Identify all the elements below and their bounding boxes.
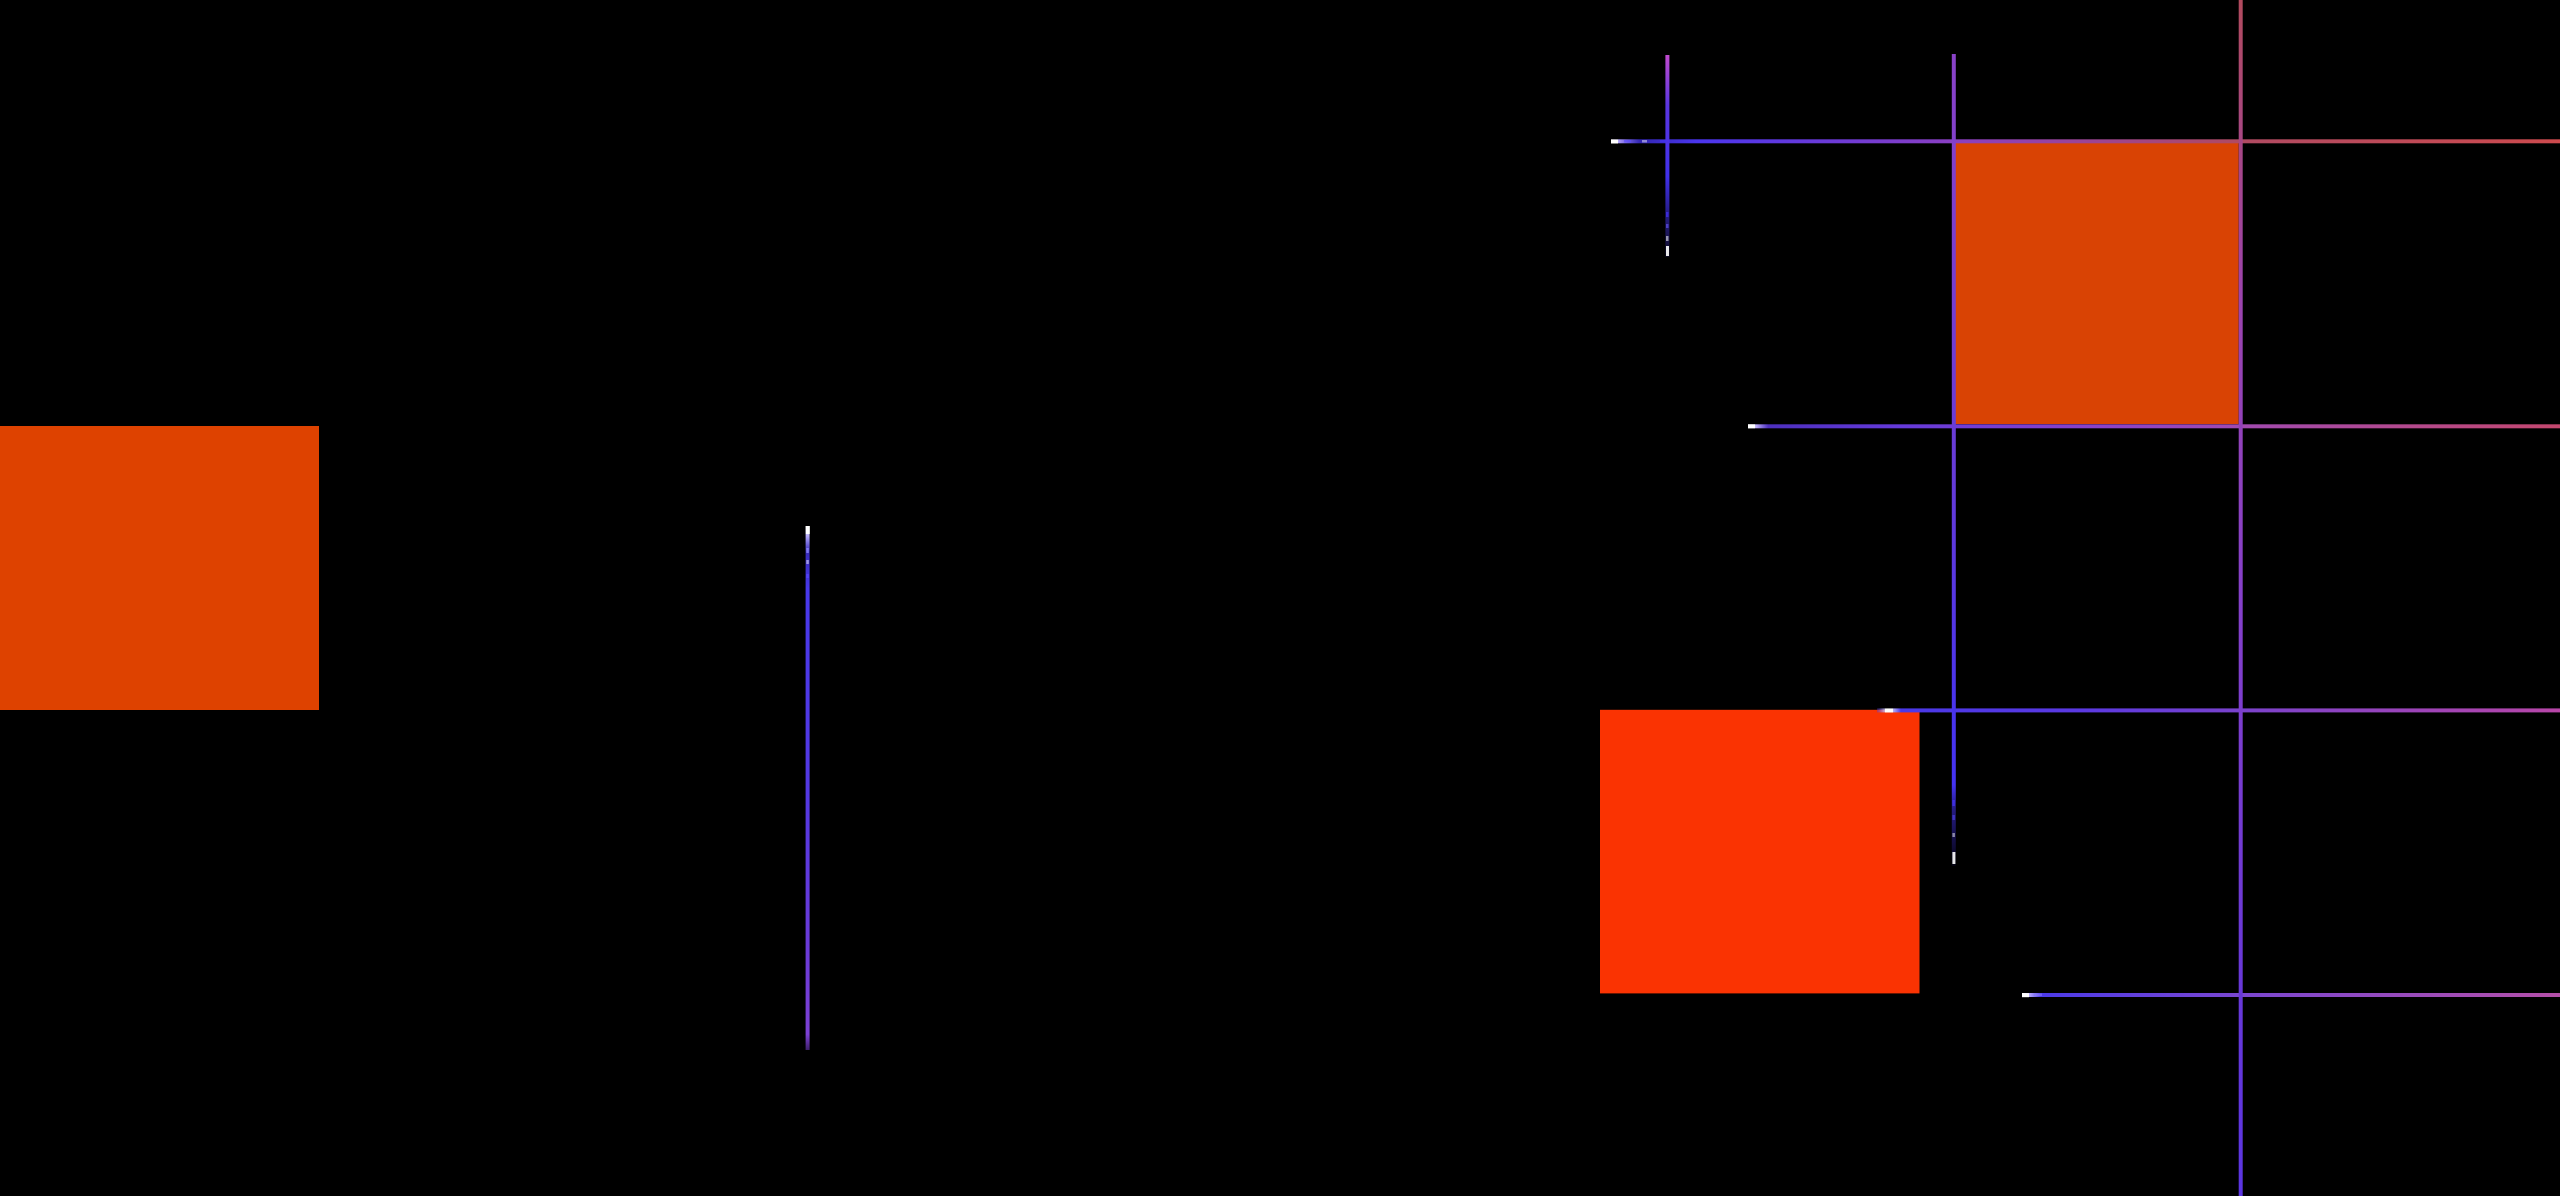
grid line V2 (vertical, x=1667) [1665,55,1669,257]
grid line V1 (vertical, x=807) [806,526,810,1050]
sparkle at V1 top tip [806,526,810,534]
speckles on H1 left segment [1624,140,1631,143]
grid line H1 (horizontal, y=141) [1611,139,2560,143]
speckles on V3 bottom tail [1952,800,1955,806]
sparkle at H2 left tip [1748,424,1755,428]
grid line H3 (horizontal, y=710) [1877,708,2560,712]
grid line V3 (vertical, x=1954) [1952,54,1956,866]
grid line V4 (vertical, x=2240) [2239,0,2243,1196]
sparkle at H4 tip [2022,993,2029,997]
square A (left orange block) [0,426,319,710]
square C (bottom-right red block) [1600,710,1920,994]
sparkle at V3 bottom tail [1952,852,1955,864]
sparkle at V2 bottom tail [1666,246,1669,256]
sparkle at H3 tip [1885,709,1893,713]
speckles on V1 top tail [806,548,809,553]
grid line H2 (horizontal, y=426) [1748,424,2560,428]
grid line H4 (horizontal, y=995) [2022,993,2560,997]
speckle on H4 after tip [2035,994,2042,997]
sparkle at H1 left tip [1611,140,1618,144]
speckles on V2 bottom tail [1666,212,1669,217]
square B (top-right orange block) [1956,143,2239,424]
